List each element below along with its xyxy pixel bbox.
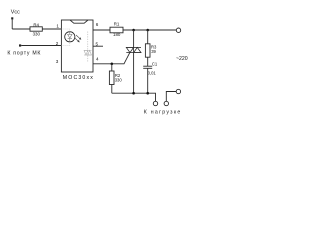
svg-text:180: 180 — [113, 32, 121, 37]
wire pin1 internal (faint) — [61, 29, 69, 32]
svg-text:0,01: 0,01 — [148, 71, 157, 76]
terminal MCU port pad — [19, 44, 21, 46]
svg-text:39: 39 — [151, 49, 156, 54]
wire pin2 internal (faint) — [61, 42, 69, 46]
LED D1 inside optocoupler: envelope circle — [65, 32, 75, 42]
triac right triangle — [134, 47, 141, 52]
svg-text:330: 330 — [33, 31, 41, 36]
svg-text:R4: R4 — [33, 22, 39, 27]
triac centre axis segment — [133, 47, 135, 52]
photo-triac detector (faint) vertical lead — [87, 32, 89, 63]
wire MCU to pin2 — [21, 45, 61, 47]
resistor R3 — [147, 30, 149, 44]
svg-text:Vcc: Vcc — [11, 10, 20, 16]
triac top bar — [126, 46, 141, 48]
triac bottom bar — [126, 52, 141, 54]
svg-text:R1: R1 — [114, 22, 120, 27]
wire R1 to AC terminal (top rail) — [123, 29, 176, 31]
svg-text:3: 3 — [56, 59, 59, 64]
svg-text:К нагрузке: К нагрузке — [144, 109, 181, 115]
terminal AC line top — [176, 28, 180, 32]
svg-text:~220: ~220 — [176, 56, 188, 62]
svg-text:6: 6 — [96, 22, 99, 27]
resistor R2 — [111, 64, 113, 71]
node junction dot (R2 tap) — [111, 63, 114, 66]
wire bottom rail — [112, 93, 156, 101]
terminal Vcc pad — [11, 17, 13, 19]
op-amp U1 optocoupler MOC30xx body — [61, 20, 93, 72]
wire Vcc to R4 — [12, 28, 30, 30]
svg-text:1: 1 — [56, 24, 59, 29]
node junction dot (triac MT2 tap) — [132, 29, 135, 32]
capacitor C1 bottom plate — [143, 67, 152, 69]
svg-text:С1: С1 — [152, 61, 158, 66]
svg-text:MOC30xx: MOC30xx — [63, 75, 93, 81]
terminal load A — [153, 101, 157, 105]
wire pin4 to gate — [93, 52, 130, 64]
LED anode lead — [69, 32, 71, 35]
transistor VS1 triac MT2 lead — [133, 30, 135, 47]
wire load B to AC bottom terminal — [166, 92, 176, 102]
svg-text:330: 330 — [115, 78, 123, 83]
svg-text:2: 2 — [56, 41, 59, 46]
resistor R4 — [30, 27, 42, 31]
node junction dot (snubber tap) — [146, 29, 149, 32]
triac left triangle — [126, 47, 133, 52]
capacitor C1 top plate — [143, 65, 152, 67]
light emission arrow b — [74, 38, 78, 42]
wire pin6 to R1 — [93, 29, 110, 31]
node junction dot (triac MT1 / rail) — [132, 92, 135, 95]
pin5 stub wire — [93, 45, 103, 47]
light emission arrow a — [76, 35, 80, 39]
photo-triac detector (faint) symbol — [84, 50, 92, 55]
LED triangle — [68, 34, 72, 38]
terminal load B — [164, 101, 168, 105]
svg-text:К порту МК: К порту МК — [7, 51, 40, 57]
LED cathode bar — [68, 38, 72, 40]
svg-text:4: 4 — [96, 57, 99, 62]
LED cathode lead — [69, 39, 71, 42]
notch (pin-1 index) on package top — [70, 20, 88, 23]
node junction dot (C1 / rail) — [146, 92, 149, 95]
terminal AC line bottom — [176, 89, 180, 93]
wire Vcc vertical — [11, 19, 13, 29]
wire R4 to pin1 — [42, 28, 61, 30]
triac MT1 lead — [133, 53, 135, 94]
resistor R1 — [110, 27, 123, 33]
wire C1 to bottom rail — [147, 68, 149, 93]
